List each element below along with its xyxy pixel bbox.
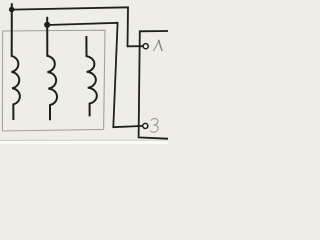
label Z (Cyrillic) <box>150 119 158 133</box>
wire second (phase B to terminal Z) <box>47 23 142 127</box>
terminal L (circle) <box>143 44 148 49</box>
machine housing box (gray) <box>2 30 105 131</box>
megohmmeter case outline (left edge, cropped at right) <box>139 31 168 139</box>
label L (Cyrillic) <box>153 40 159 51</box>
wire top (phase A to terminal L) <box>12 7 143 46</box>
terminal Z (circle) <box>143 123 148 128</box>
bottom scan strip <box>0 141 168 144</box>
inductor L3 (winding 3) <box>86 36 97 116</box>
node A junction dot <box>9 7 15 13</box>
inductor L2 (winding 2) <box>47 17 58 121</box>
inductor L1 (winding 1) <box>11 3 20 120</box>
node B junction dot <box>44 22 50 28</box>
